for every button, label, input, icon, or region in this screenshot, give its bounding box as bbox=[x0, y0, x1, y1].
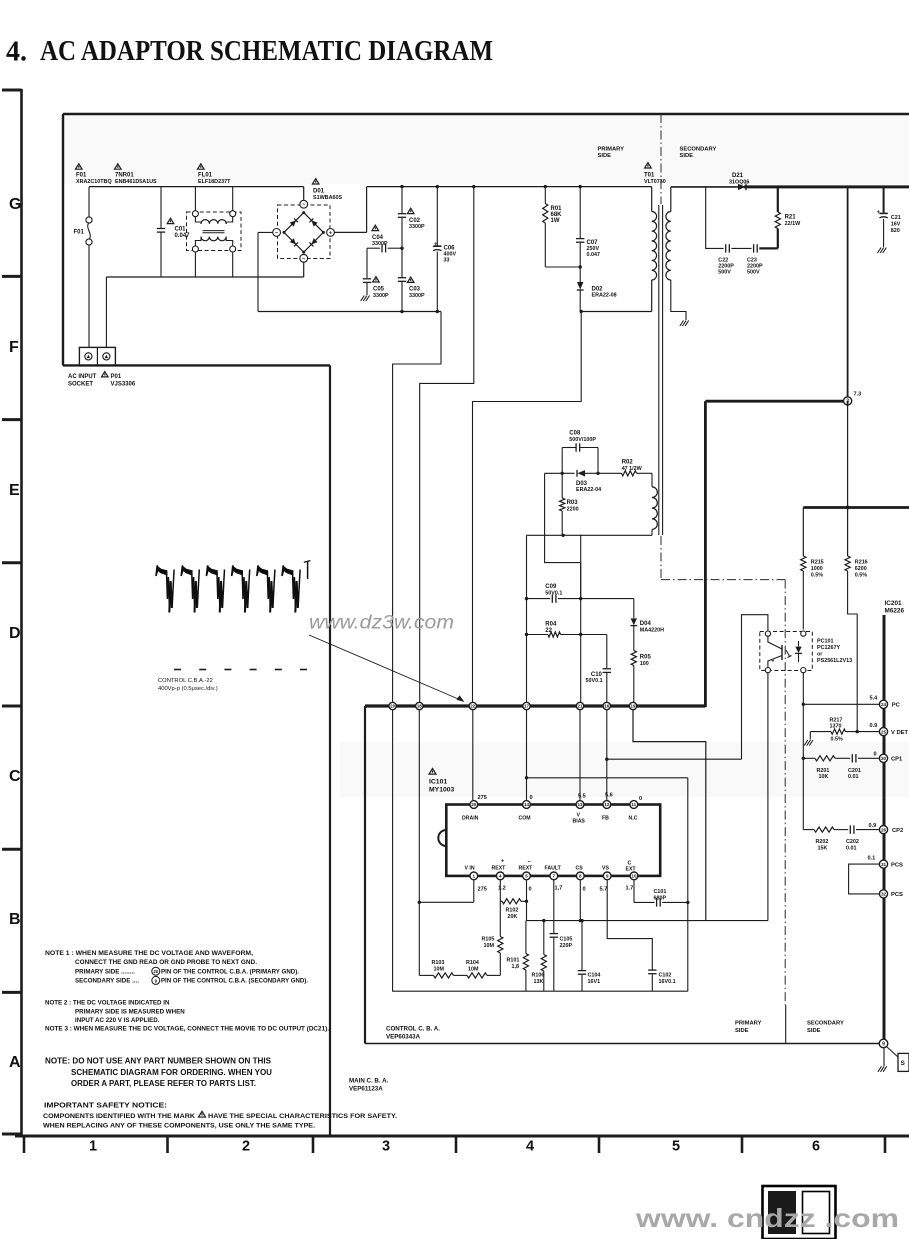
svg-text:PCS: PCS bbox=[891, 892, 903, 898]
PC101 cathode down bbox=[802, 673, 804, 830]
svg-text:400Vp-p (0.5μsec./div.): 400Vp-p (0.5μsec./div.) bbox=[158, 686, 218, 692]
svg-text:IC201: IC201 bbox=[885, 600, 902, 607]
R01 68K 1W bbox=[544, 187, 546, 204]
svg-text:R201: R201 bbox=[817, 768, 830, 774]
ground at R217 bbox=[809, 740, 813, 746]
column tick bbox=[884, 1136, 887, 1153]
svg-text:R101: R101 bbox=[507, 958, 520, 964]
svg-text:PIN OF THE CONTROL C.B.A. (SEC: PIN OF THE CONTROL C.B.A. (SECONDARY GND… bbox=[161, 978, 308, 985]
margin tick bbox=[2, 275, 22, 278]
C22/C23 loop bbox=[706, 187, 724, 249]
waveform baseline dashes bbox=[174, 669, 181, 671]
svg-text:R01: R01 bbox=[551, 206, 563, 212]
svg-text:3300P: 3300P bbox=[409, 293, 425, 299]
svg-text:0.047: 0.047 bbox=[587, 252, 601, 258]
svg-text:R106: R106 bbox=[532, 972, 545, 978]
svg-text:PC: PC bbox=[892, 703, 901, 709]
svg-text:1W: 1W bbox=[551, 218, 560, 224]
IC101 body bbox=[446, 805, 660, 876]
drain wire D02 node to pin22 bbox=[581, 311, 652, 313]
svg-text:ERA22-08: ERA22-08 bbox=[592, 293, 617, 299]
7NR01 label bbox=[115, 164, 122, 169]
V IN pin1 to pin18 line bbox=[473, 880, 475, 903]
svg-text:INPUT AC 220 V IS APPLIED.: INPUT AC 220 V IS APPLIED. bbox=[75, 1017, 160, 1024]
capacitor C06 electrolytic bbox=[436, 187, 438, 246]
margin tick bbox=[2, 991, 22, 994]
svg-text:0.01: 0.01 bbox=[848, 774, 859, 780]
connector pin 22 bbox=[469, 702, 476, 709]
capacitor C01 bbox=[160, 187, 162, 228]
svg-text:PRIMARY SIDE ........: PRIMARY SIDE ........ bbox=[75, 968, 135, 975]
svg-text:S: S bbox=[901, 1060, 906, 1067]
svg-text:CS: CS bbox=[576, 866, 584, 872]
svg-text:10M: 10M bbox=[468, 966, 479, 972]
left margin index line bbox=[20, 89, 23, 1137]
svg-text:R202: R202 bbox=[816, 839, 829, 845]
svg-text:CONTROL C.B.A.-22: CONTROL C.B.A.-22 bbox=[158, 678, 213, 684]
PC101 optocoupler bbox=[760, 632, 813, 671]
COM branch bbox=[527, 777, 688, 779]
C10 50V0.1 bbox=[606, 635, 608, 669]
svg-text:7NR01: 7NR01 bbox=[115, 173, 134, 179]
svg-text:R104: R104 bbox=[466, 960, 479, 966]
svg-text:or: or bbox=[817, 651, 823, 657]
svg-text:FB: FB bbox=[602, 815, 609, 821]
diode D03 bbox=[577, 470, 585, 476]
svg-text:0: 0 bbox=[583, 887, 586, 893]
svg-text:FAULT: FAULT bbox=[545, 866, 562, 872]
svg-text:IC101: IC101 bbox=[429, 779, 447, 786]
svg-text:C201: C201 bbox=[848, 768, 861, 774]
svg-text:4: 4 bbox=[526, 1139, 534, 1155]
svg-text:CP2: CP2 bbox=[892, 828, 903, 834]
svg-text:3300P: 3300P bbox=[373, 293, 389, 299]
R05 100 bbox=[631, 651, 636, 666]
C09 50V0.1 bbox=[527, 598, 551, 600]
riser 22->pin20 bbox=[472, 710, 474, 800]
R03 2200 bbox=[561, 473, 563, 498]
svg-text:www. cndzz .com: www. cndzz .com bbox=[635, 1203, 899, 1233]
connector pin 16 bbox=[603, 702, 610, 709]
svg-text:PRIMARY: PRIMARY bbox=[735, 1021, 762, 1027]
svg-text:32: 32 bbox=[881, 892, 887, 897]
svg-text:DRAIN: DRAIN bbox=[462, 815, 479, 821]
svg-text:CONNECT THE GND READ OR GND PR: CONNECT THE GND READ OR GND PROBE TO NEX… bbox=[75, 959, 257, 966]
svg-text:SIDE: SIDE bbox=[598, 153, 612, 159]
bridge diamond bbox=[284, 213, 323, 253]
loop bottom row bbox=[527, 534, 653, 536]
FL01 label bbox=[198, 164, 205, 169]
svg-text:MA4220H: MA4220H bbox=[640, 627, 664, 633]
column tick bbox=[455, 1136, 458, 1153]
svg-text:N,C: N,C bbox=[629, 815, 638, 821]
svg-text:10M: 10M bbox=[484, 943, 495, 949]
svg-text:500V: 500V bbox=[747, 269, 760, 275]
svg-text:0.1: 0.1 bbox=[868, 855, 876, 861]
svg-text:E: E bbox=[9, 482, 20, 499]
svg-text:C101: C101 bbox=[654, 889, 667, 895]
margin tick bbox=[2, 1133, 22, 1136]
IC101 pin 20 bbox=[470, 801, 478, 809]
svg-text:16V: 16V bbox=[891, 222, 901, 228]
svg-text:COMPONENTS IDENTIFIED WITH THE: COMPONENTS IDENTIFIED WITH THE MARK bbox=[43, 1113, 195, 1120]
svg-text:B: B bbox=[9, 911, 21, 928]
svg-text:0.5%: 0.5% bbox=[855, 572, 867, 578]
svg-text:VEP60343A: VEP60343A bbox=[386, 1033, 421, 1040]
svg-text:C05: C05 bbox=[373, 287, 385, 293]
svg-text:0: 0 bbox=[639, 796, 642, 802]
svg-text:0.01: 0.01 bbox=[846, 845, 857, 851]
svg-text:NOTE 2 : THE DC VOLTAGE INDIC: NOTE 2 : THE DC VOLTAGE INDICATED IN bbox=[45, 1000, 170, 1007]
svg-text:SIDE: SIDE bbox=[735, 1028, 749, 1034]
svg-text:V DET: V DET bbox=[891, 730, 909, 736]
svg-text:10: 10 bbox=[631, 874, 637, 879]
svg-text:ENB461D5A1US: ENB461D5A1US bbox=[115, 179, 157, 185]
svg-text:3300P: 3300P bbox=[409, 224, 425, 230]
svg-text:12: 12 bbox=[604, 802, 610, 807]
IC101 pin 14 bbox=[523, 801, 531, 809]
C101 680P bbox=[633, 880, 635, 903]
svg-text:D02: D02 bbox=[592, 286, 604, 292]
connector pin 17 bbox=[523, 702, 530, 709]
svg-text:V IN: V IN bbox=[465, 866, 475, 872]
svg-text:13K: 13K bbox=[534, 979, 544, 985]
svg-text:3: 3 bbox=[382, 1139, 390, 1155]
pin21 riser bbox=[580, 535, 582, 702]
IC101 pin 11 bbox=[630, 801, 638, 809]
R215 1000 0.5% bbox=[802, 508, 804, 557]
pin8 CS riser bbox=[579, 880, 581, 921]
bottom bus bbox=[554, 990, 688, 992]
svg-text:F: F bbox=[9, 339, 19, 356]
svg-text:30: 30 bbox=[881, 756, 887, 761]
svg-text:F01: F01 bbox=[76, 173, 87, 179]
IC201 pin 31 PCS bbox=[879, 860, 887, 868]
svg-text:SIDE: SIDE bbox=[807, 1028, 821, 1034]
svg-text:6: 6 bbox=[812, 1139, 820, 1155]
svg-text:C102: C102 bbox=[659, 972, 672, 978]
arrow caption to pin22 bbox=[309, 635, 463, 701]
isolation divider bbox=[660, 536, 662, 580]
svg-text:D: D bbox=[9, 625, 21, 642]
svg-text:820: 820 bbox=[891, 228, 900, 234]
svg-text:500V: 500V bbox=[718, 269, 731, 275]
svg-text:9: 9 bbox=[882, 1041, 885, 1047]
capacitor C04 bbox=[367, 247, 380, 249]
svg-text:0: 0 bbox=[529, 887, 532, 893]
svg-text:AC INPUT: AC INPUT bbox=[68, 374, 97, 380]
svg-text:1000: 1000 bbox=[811, 566, 823, 572]
svg-text:SECONDARY: SECONDARY bbox=[807, 1021, 844, 1027]
IC101 pin 4 bbox=[496, 872, 504, 880]
svg-text:500V/100P: 500V/100P bbox=[569, 437, 596, 443]
svg-text:F01: F01 bbox=[74, 230, 85, 236]
transformer T01 primary winding bbox=[651, 187, 653, 212]
svg-text:2200: 2200 bbox=[567, 506, 579, 512]
PC101 phototransistor bbox=[781, 645, 783, 660]
svg-text:EXT: EXT bbox=[626, 866, 637, 872]
svg-text:3300P: 3300P bbox=[372, 241, 388, 247]
HV+ bus bbox=[367, 186, 652, 188]
svg-text:275: 275 bbox=[478, 795, 487, 801]
control board bottom edge bbox=[365, 1043, 879, 1045]
svg-text:R21: R21 bbox=[785, 215, 797, 221]
svg-text:19: 19 bbox=[631, 704, 636, 709]
connector pin 18 bbox=[416, 702, 423, 709]
IC201 pin 32 PCS bbox=[879, 890, 887, 898]
top AC bus wire bbox=[89, 186, 304, 188]
bridge rectifier D01 bbox=[278, 205, 331, 259]
connector pin 21 bbox=[576, 702, 583, 709]
svg-text:D03: D03 bbox=[576, 481, 588, 487]
svg-text:PIN OF THE CONTROL C.B.A. (PRI: PIN OF THE CONTROL C.B.A. (PRIMARY GND). bbox=[161, 968, 299, 975]
R02 47 1/2W bbox=[622, 471, 637, 476]
connector pin 20 bbox=[389, 702, 396, 709]
svg-text:SECONDARY SIDE ....: SECONDARY SIDE .... bbox=[75, 978, 139, 985]
svg-text:R02: R02 bbox=[622, 460, 634, 466]
svg-text:0: 0 bbox=[530, 795, 533, 801]
svg-text:26: 26 bbox=[881, 827, 887, 832]
svg-text:17: 17 bbox=[524, 704, 529, 709]
svg-text:VJS3306: VJS3306 bbox=[111, 382, 136, 388]
svg-text:20: 20 bbox=[390, 704, 395, 709]
waveform sketch bbox=[156, 566, 167, 577]
svg-text:ELF18D237T: ELF18D237T bbox=[198, 179, 231, 185]
svg-text:SCHEMATIC DIAGRAM FOR ORDERING: SCHEMATIC DIAGRAM FOR ORDERING. WHEN YOU bbox=[71, 1067, 272, 1077]
svg-text:C03: C03 bbox=[409, 287, 421, 293]
fuse F01 bbox=[88, 187, 90, 217]
margin tick bbox=[2, 705, 22, 708]
svg-text:VEP61123A: VEP61123A bbox=[349, 1085, 383, 1092]
capacitor C03 bbox=[400, 278, 404, 281]
svg-text:33: 33 bbox=[444, 258, 450, 264]
svg-text:www.dz3w.com: www.dz3w.com bbox=[309, 613, 454, 634]
pin24 PC bbox=[803, 703, 879, 705]
svg-text:5.4: 5.4 bbox=[870, 696, 879, 702]
svg-text:+: + bbox=[434, 242, 438, 248]
margin tick bbox=[2, 418, 22, 421]
svg-text:HAVE THE SPECIAL CHARACTERISTI: HAVE THE SPECIAL CHARACTERISTICS FOR SAF… bbox=[208, 1113, 397, 1120]
pins 31/32 PCS loop bbox=[849, 864, 880, 894]
pin17 riser bbox=[526, 599, 528, 702]
svg-text:1,8: 1,8 bbox=[512, 964, 520, 970]
R201 10K + C201 0.01 to pin30 bbox=[803, 757, 815, 759]
column tick bbox=[23, 1136, 26, 1153]
svg-text:220P: 220P bbox=[560, 943, 573, 949]
PC101 emitter down bbox=[767, 673, 769, 921]
svg-text:R215: R215 bbox=[811, 560, 824, 566]
svg-text:0.5%: 0.5% bbox=[831, 737, 843, 743]
svg-text:20K: 20K bbox=[508, 914, 518, 920]
svg-text:16V0.1: 16V0.1 bbox=[659, 979, 676, 985]
IC101 pin 5 bbox=[523, 872, 531, 880]
svg-text:VLT0730: VLT0730 bbox=[644, 179, 666, 185]
svg-text:R216: R216 bbox=[855, 560, 868, 566]
svg-text:PRIMARY SIDE IS MEASURED WHEN: PRIMARY SIDE IS MEASURED WHEN bbox=[75, 1008, 185, 1015]
svg-text:PCS: PCS bbox=[891, 862, 903, 868]
svg-text:5: 5 bbox=[672, 1139, 680, 1155]
svg-text:XRA2C10TBQ: XRA2C10TBQ bbox=[76, 179, 112, 185]
C104 16V1 bbox=[581, 921, 583, 970]
svg-text:IMPORTANT SAFETY NOTICE:: IMPORTANT SAFETY NOTICE: bbox=[44, 1101, 167, 1110]
pin9 VS jog to C102 bbox=[607, 880, 652, 970]
svg-text:PC1267Y: PC1267Y bbox=[817, 645, 840, 651]
svg-text:20: 20 bbox=[471, 802, 477, 807]
F01 label bbox=[76, 164, 83, 169]
svg-text:ORDER A PART, PLEASE REFER TO: ORDER A PART, PLEASE REFER TO PARTS LIST… bbox=[71, 1078, 256, 1088]
R101 1,8 bbox=[523, 954, 528, 971]
svg-text:C105: C105 bbox=[560, 936, 573, 942]
svg-text:CP1: CP1 bbox=[891, 757, 903, 763]
bottom index axis bbox=[15, 1135, 909, 1138]
svg-text:2: 2 bbox=[242, 1139, 250, 1155]
capacitor C05 bbox=[366, 248, 368, 278]
primary/secondary divider top bbox=[660, 114, 662, 204]
IC101 pin 8 bbox=[576, 872, 584, 880]
svg-text:22: 22 bbox=[545, 628, 552, 634]
svg-text:D21: D21 bbox=[732, 173, 744, 179]
svg-text:0: 0 bbox=[874, 752, 877, 758]
secondary bus thick bbox=[671, 186, 748, 188]
svg-text:C10: C10 bbox=[591, 672, 603, 678]
R04 22 bbox=[527, 634, 549, 636]
C102 16V0.1 bbox=[650, 970, 654, 973]
C105 220P bbox=[553, 880, 555, 933]
riser 17->pin14 bbox=[526, 710, 528, 800]
ground at pin 9 bbox=[883, 1048, 885, 1066]
svg-text:1370: 1370 bbox=[830, 724, 842, 730]
wire bus to pin3 bbox=[847, 187, 849, 397]
secondary winding ground bbox=[685, 321, 689, 327]
svg-text:16: 16 bbox=[604, 704, 609, 709]
svg-text:C21: C21 bbox=[891, 215, 901, 221]
C101 right riser bbox=[687, 778, 689, 991]
margin tick bbox=[2, 89, 22, 92]
svg-text:1: 1 bbox=[89, 1139, 97, 1155]
R104 10M bbox=[454, 974, 468, 976]
control board top edge with connector pins bbox=[365, 704, 705, 707]
svg-text:C202: C202 bbox=[846, 839, 859, 845]
svg-text:21: 21 bbox=[578, 704, 583, 709]
svg-text:G: G bbox=[9, 196, 21, 213]
IC201 left edge bbox=[883, 615, 886, 1043]
svg-text:MY1003: MY1003 bbox=[429, 786, 455, 793]
svg-text:1.2: 1.2 bbox=[498, 886, 506, 892]
svg-text:R03: R03 bbox=[567, 500, 579, 506]
svg-text:10K: 10K bbox=[819, 774, 829, 780]
svg-text:PS2561L2V13: PS2561L2V13 bbox=[817, 658, 852, 664]
svg-text:5.7: 5.7 bbox=[600, 887, 608, 893]
svg-text:7.3: 7.3 bbox=[854, 391, 862, 397]
svg-text:C09: C09 bbox=[545, 584, 557, 590]
PC101 collector to FB node bbox=[742, 615, 768, 760]
svg-text:50V0.1: 50V0.1 bbox=[545, 590, 562, 596]
svg-text:D01: D01 bbox=[313, 189, 325, 195]
column tick bbox=[312, 1136, 315, 1153]
svg-text:VS: VS bbox=[602, 866, 609, 872]
svg-text:COM: COM bbox=[519, 815, 531, 821]
FL01 windings bbox=[195, 217, 201, 222]
riser 21->pin13 bbox=[579, 710, 581, 800]
svg-text:4.: 4. bbox=[6, 37, 27, 68]
svg-text:REXT: REXT bbox=[492, 866, 507, 872]
svg-text:16V1: 16V1 bbox=[588, 979, 601, 985]
IC101 pin 9 bbox=[603, 872, 611, 880]
IC101 label bbox=[429, 768, 436, 774]
svg-text:50V0.1: 50V0.1 bbox=[586, 678, 603, 684]
svg-text:24: 24 bbox=[881, 702, 887, 707]
svg-text:SOCKET: SOCKET bbox=[68, 382, 93, 388]
R102 20K bbox=[499, 880, 501, 902]
pin5 REXT- riser + long wire bbox=[526, 880, 528, 921]
IC101 pin 1 bbox=[470, 872, 478, 880]
svg-text:31: 31 bbox=[881, 862, 887, 867]
C21 16V 820 bbox=[883, 187, 885, 213]
R202 15K + C202 0.01 to pin26 bbox=[803, 829, 814, 831]
svg-text:0.5%: 0.5% bbox=[811, 572, 823, 578]
svg-text:13: 13 bbox=[577, 802, 583, 807]
R216 6200 0.5% bbox=[847, 405, 849, 556]
IC101 pin 7 bbox=[550, 872, 558, 880]
IC201 pin 26 CP2 bbox=[879, 826, 887, 834]
svg-text:AC ADAPTOR SCHEMATIC DIAGRAM: AC ADAPTOR SCHEMATIC DIAGRAM bbox=[40, 36, 493, 67]
svg-text:18: 18 bbox=[417, 704, 422, 709]
margin tick bbox=[2, 561, 22, 564]
svg-text:C06: C06 bbox=[444, 245, 456, 251]
svg-text:PC101: PC101 bbox=[817, 638, 833, 644]
svg-text:11: 11 bbox=[631, 802, 636, 807]
riser 16->pin12 bbox=[606, 710, 608, 800]
logo box bbox=[763, 1186, 836, 1239]
PC101 LED bbox=[795, 647, 801, 653]
IC101 pin 12 bbox=[603, 801, 611, 809]
svg-text:BIAS: BIAS bbox=[573, 818, 586, 824]
IC201 pin 30 CP1 bbox=[879, 754, 887, 762]
FB branch bbox=[607, 758, 742, 760]
D03 row bbox=[545, 472, 575, 474]
column tick bbox=[166, 1136, 169, 1153]
connector pin 3 bbox=[844, 397, 852, 405]
svg-text:PRIMARY: PRIMARY bbox=[598, 146, 625, 152]
D01 label bbox=[312, 179, 319, 184]
svg-text:25: 25 bbox=[881, 729, 887, 734]
pin20 riser to bottom bus bbox=[393, 710, 554, 991]
svg-text:R105: R105 bbox=[482, 936, 495, 942]
svg-text:C01: C01 bbox=[175, 227, 187, 233]
svg-text:0.9: 0.9 bbox=[869, 823, 877, 829]
R106 13K bbox=[543, 921, 545, 955]
svg-text:5.5: 5.5 bbox=[578, 794, 586, 800]
svg-text:R102: R102 bbox=[506, 908, 519, 914]
T01 label bbox=[645, 163, 652, 168]
svg-text:0.9: 0.9 bbox=[870, 723, 878, 729]
svg-text:+: + bbox=[877, 210, 881, 216]
column tick bbox=[598, 1136, 601, 1153]
svg-text:68K: 68K bbox=[551, 212, 563, 218]
S box bbox=[898, 1053, 909, 1071]
svg-text:REXT: REXT bbox=[519, 866, 534, 872]
pin18 riser continues down bbox=[418, 710, 420, 975]
svg-text:P01: P01 bbox=[111, 374, 122, 380]
svg-text:100: 100 bbox=[640, 661, 649, 667]
svg-text:D04: D04 bbox=[640, 621, 652, 627]
R105 10M bbox=[499, 901, 501, 936]
svg-text:5.6: 5.6 bbox=[605, 793, 613, 799]
link loop bottom to C09 row bbox=[526, 535, 528, 598]
svg-text:47 1/2W: 47 1/2W bbox=[622, 466, 643, 472]
IC101 pin 10 bbox=[630, 872, 638, 880]
thick secondary rail bbox=[803, 506, 909, 509]
